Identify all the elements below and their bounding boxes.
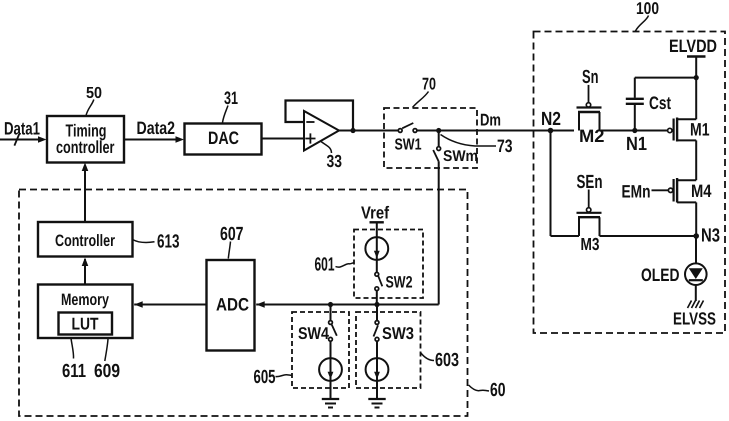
svg-text:Data1: Data1 <box>4 119 40 139</box>
svg-text:605: 605 <box>254 367 276 388</box>
svg-text:603: 603 <box>435 350 459 371</box>
svg-text:M3: M3 <box>581 234 600 254</box>
svg-text:SWm: SWm <box>443 148 478 165</box>
svg-text:31: 31 <box>224 88 238 108</box>
svg-text:LUT: LUT <box>72 315 100 334</box>
svg-text:N3: N3 <box>701 226 720 247</box>
svg-text:609: 609 <box>94 361 120 382</box>
svg-text:N1: N1 <box>626 134 647 155</box>
svg-text:EMn: EMn <box>622 182 651 202</box>
svg-text:Controller: Controller <box>55 232 115 250</box>
svg-text:611: 611 <box>62 361 86 382</box>
svg-text:Vref: Vref <box>361 203 389 223</box>
svg-text:601: 601 <box>315 255 335 276</box>
svg-text:Sn: Sn <box>582 67 599 88</box>
svg-text:ELVDD: ELVDD <box>669 36 717 56</box>
svg-text:60: 60 <box>490 380 506 401</box>
svg-text:SW4: SW4 <box>298 324 329 343</box>
svg-text:ELVSS: ELVSS <box>673 309 716 329</box>
svg-text:SW2: SW2 <box>386 274 413 292</box>
svg-text:Cst: Cst <box>649 93 671 113</box>
svg-text:ADC: ADC <box>216 295 249 315</box>
svg-text:SW1: SW1 <box>395 137 422 154</box>
svg-text:SW3: SW3 <box>382 324 414 343</box>
svg-text:OLED: OLED <box>641 265 680 285</box>
svg-text:70: 70 <box>422 75 436 94</box>
svg-text:SEn: SEn <box>577 172 603 193</box>
svg-text:controller: controller <box>56 137 115 157</box>
svg-text:N2: N2 <box>541 109 561 130</box>
svg-text:613: 613 <box>157 232 180 253</box>
svg-text:73: 73 <box>497 136 513 156</box>
svg-text:50: 50 <box>86 85 102 102</box>
svg-text:Memory: Memory <box>61 291 110 309</box>
svg-text:33: 33 <box>327 151 343 171</box>
svg-text:607: 607 <box>220 224 244 245</box>
svg-text:M2: M2 <box>579 126 605 146</box>
svg-text:100: 100 <box>636 0 659 18</box>
svg-text:Data2: Data2 <box>137 118 176 138</box>
svg-text:M1: M1 <box>690 120 710 140</box>
svg-text:M4: M4 <box>691 181 712 201</box>
svg-text:DAC: DAC <box>208 128 239 148</box>
svg-text:Dm: Dm <box>480 111 501 130</box>
